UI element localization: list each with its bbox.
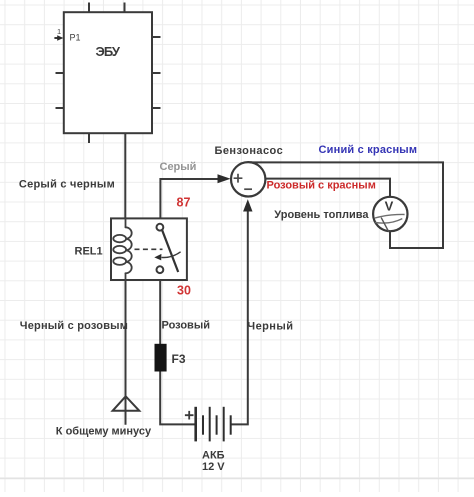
svg-text:Розовый: Розовый bbox=[162, 320, 210, 332]
svg-text:Розовый с красным: Розовый с красным bbox=[267, 180, 376, 192]
svg-text:1: 1 bbox=[57, 27, 61, 36]
svg-text:Уровень топлива: Уровень топлива bbox=[274, 209, 369, 221]
svg-text:30: 30 bbox=[177, 284, 191, 298]
svg-text:12 V: 12 V bbox=[202, 461, 225, 473]
svg-text:АКБ: АКБ bbox=[202, 450, 225, 462]
svg-text:Бензонасос: Бензонасос bbox=[215, 145, 284, 157]
svg-text:Серый: Серый bbox=[160, 161, 197, 173]
svg-text:V: V bbox=[385, 199, 394, 214]
svg-text:Синий с красным: Синий с красным bbox=[319, 144, 418, 156]
svg-text:Черный: Черный bbox=[247, 320, 293, 332]
svg-text:Черный с розовым: Черный с розовым bbox=[20, 320, 128, 332]
svg-text:К общему минусу: К общему минусу bbox=[56, 425, 152, 437]
svg-text:REL1: REL1 bbox=[75, 245, 103, 257]
svg-text:Серый с черным: Серый с черным bbox=[19, 179, 115, 191]
svg-text:ЭБУ: ЭБУ bbox=[95, 44, 120, 59]
svg-text:87: 87 bbox=[177, 196, 191, 210]
svg-text:F3: F3 bbox=[172, 352, 186, 366]
svg-text:P1: P1 bbox=[70, 32, 81, 42]
